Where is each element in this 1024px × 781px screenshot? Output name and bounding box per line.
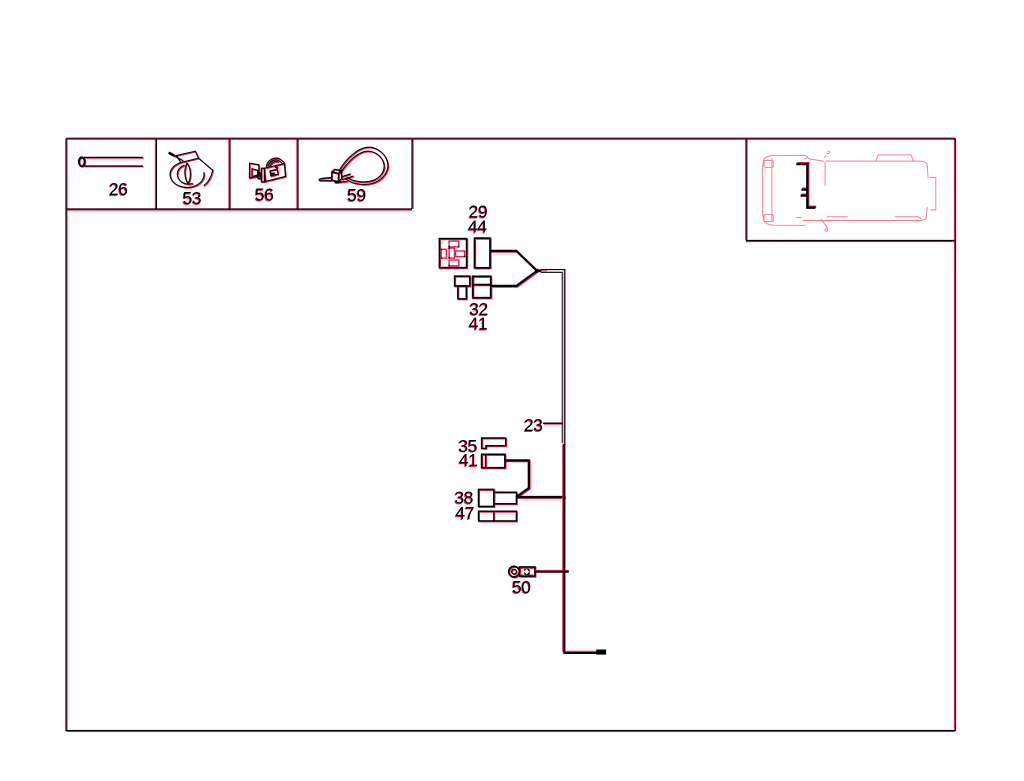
car inset box	[746, 139, 956, 241]
car mirror	[821, 217, 848, 229]
labels black	[109, 179, 543, 597]
frame black	[66, 139, 956, 731]
trunk double line red fringe	[541, 270, 564, 444]
car front lamp bottom	[764, 215, 773, 222]
car b-pillar	[824, 162, 826, 186]
car box red lines	[746, 139, 956, 242]
car antenna	[824, 151, 830, 158]
car grille line	[771, 159, 773, 223]
parts row red lines	[66, 139, 413, 210]
trunk bold red fringe	[535, 444, 597, 652]
wire to ring 50	[535, 571, 569, 573]
car sill right	[895, 217, 922, 220]
car hood	[762, 155, 805, 225]
main frame red	[67, 138, 955, 732]
junction stub	[537, 269, 542, 272]
parts row dividers and bottom	[66, 139, 412, 209]
frame red accents	[66, 138, 956, 732]
car rear bracket	[930, 177, 936, 210]
relay box pin cavities (red)	[441, 241, 533, 575]
car sill left	[796, 217, 802, 219]
relay box pin corner dots	[440, 246, 465, 267]
art red misregistration copy	[80, 148, 566, 578]
trunk bold line	[535, 444, 597, 653]
harness location mark red copy	[797, 163, 816, 207]
car body bottom	[803, 207, 928, 221]
harness location mark	[796, 164, 815, 208]
car cowl	[804, 155, 825, 161]
labels red copy	[108, 180, 542, 598]
art black copy	[79, 147, 566, 577]
car cab roof	[876, 155, 914, 161]
trunk end cap	[596, 650, 606, 655]
junction node	[535, 269, 539, 273]
trunk double line	[541, 270, 565, 445]
car body top	[826, 161, 928, 178]
main frame	[66, 139, 956, 731]
car outline (pink)	[762, 151, 936, 231]
ring terminal white diamond	[524, 569, 529, 575]
car front lamp top	[764, 160, 773, 167]
